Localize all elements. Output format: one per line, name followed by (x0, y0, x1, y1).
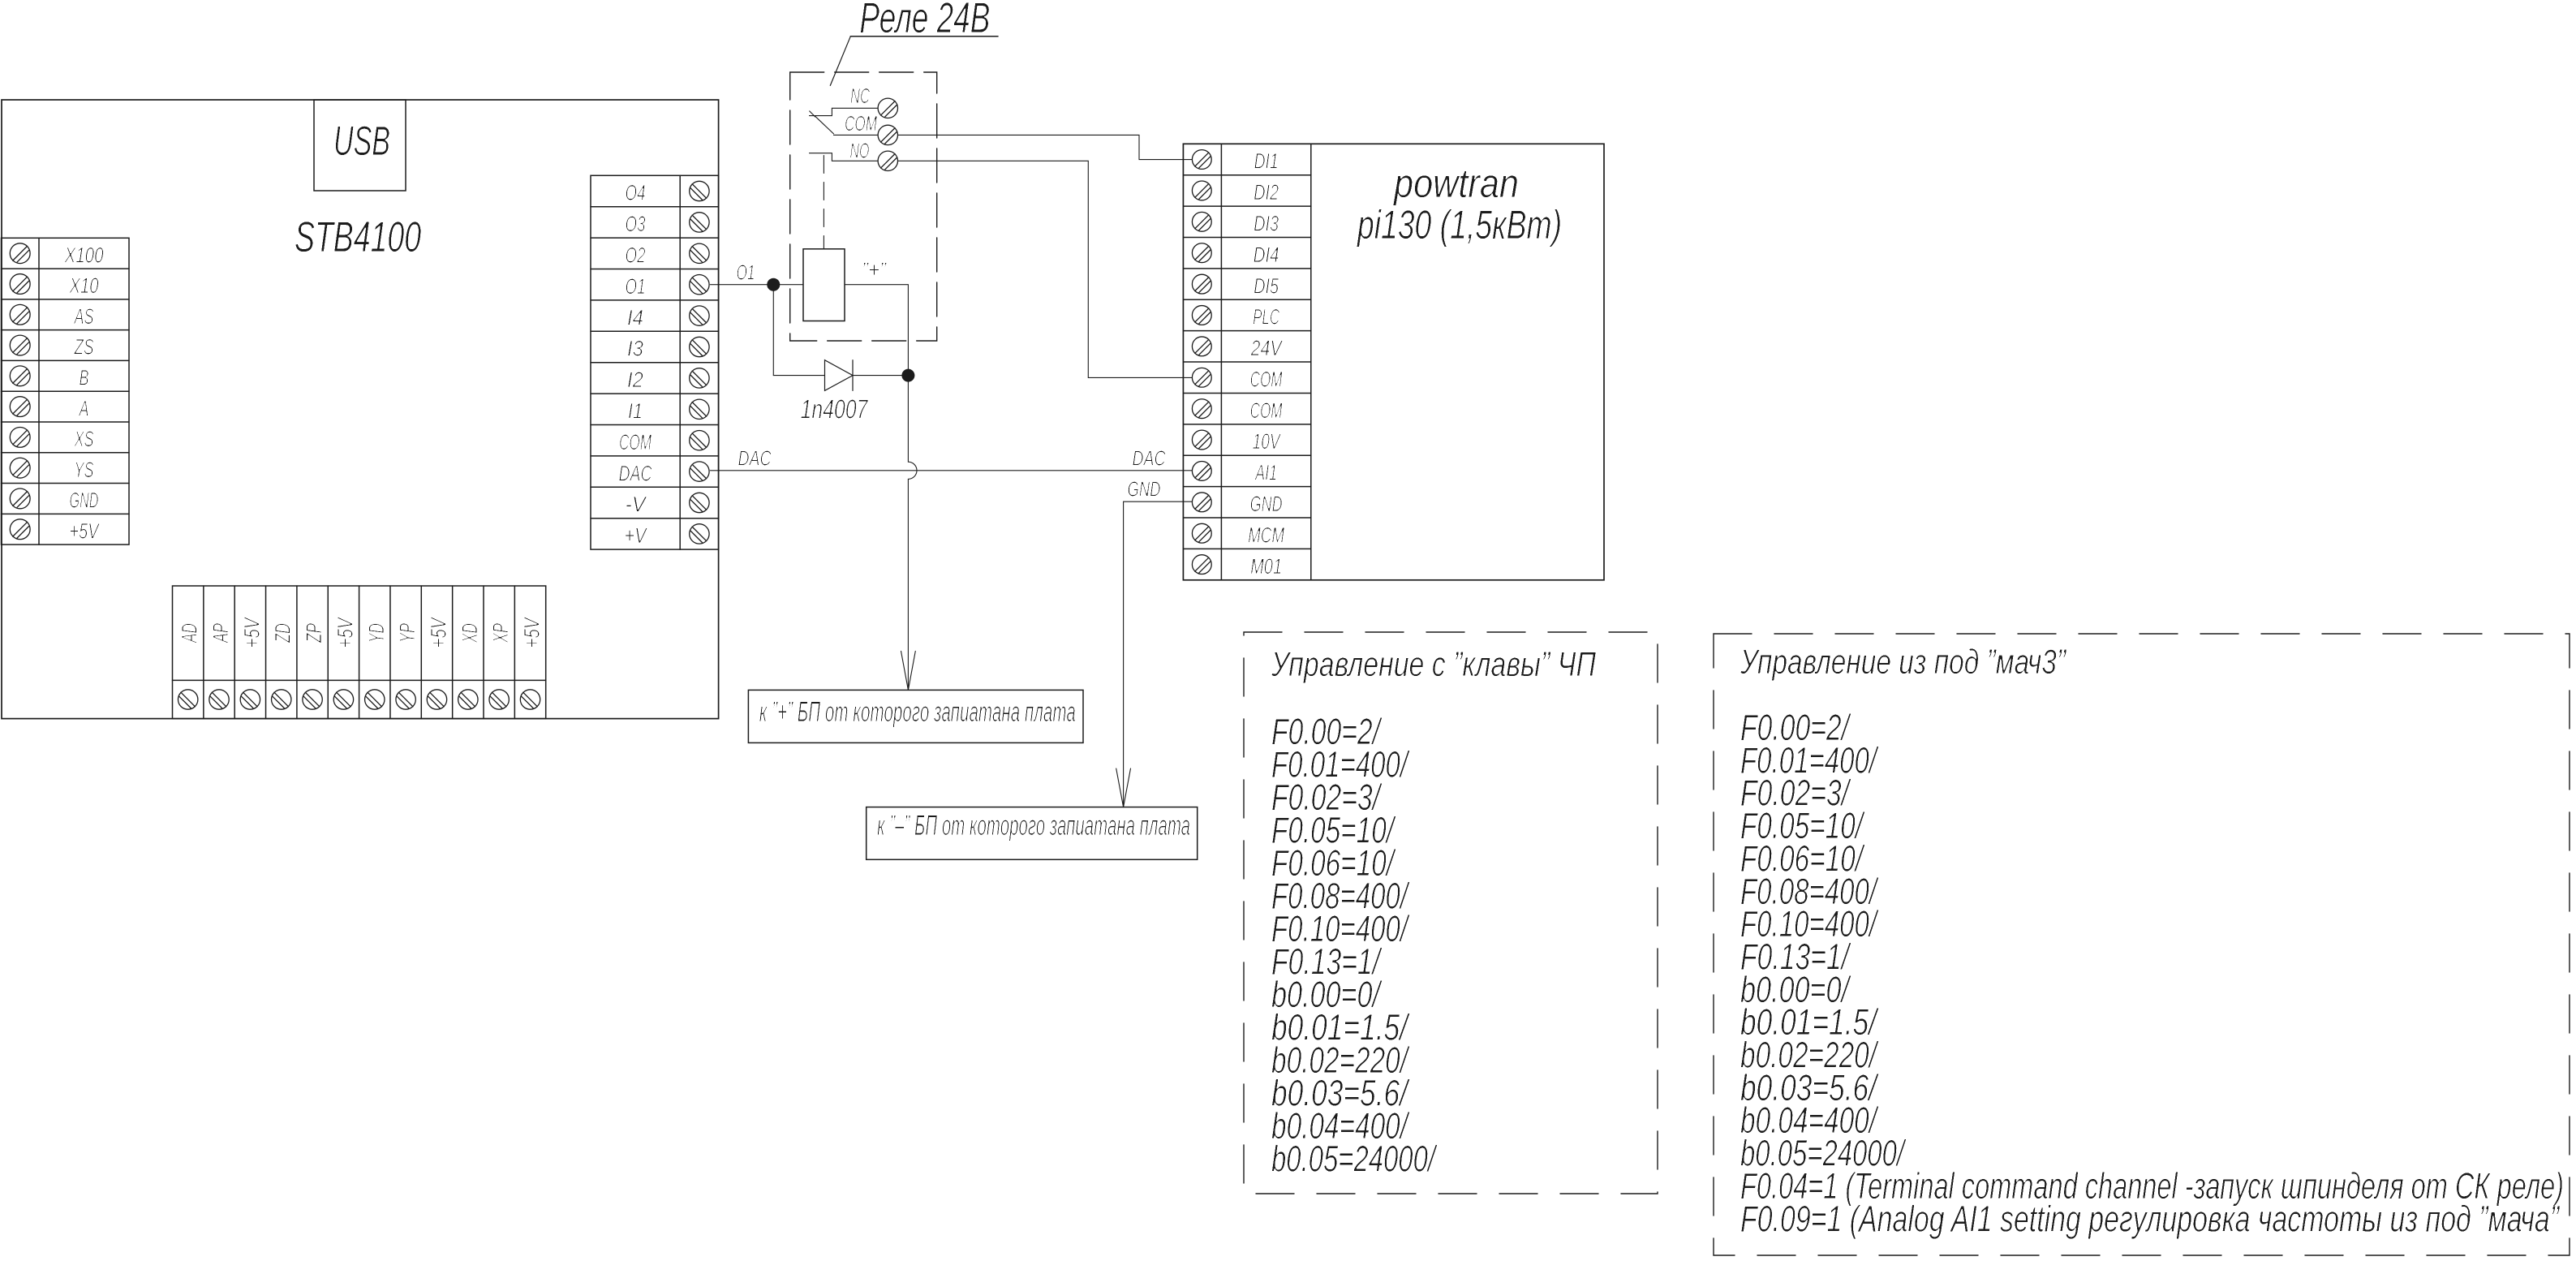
svg-text:XS: XS (74, 427, 94, 451)
svg-text:I4: I4 (627, 305, 643, 329)
svg-text:ZD: ZD (271, 623, 295, 643)
svg-text:A: A (78, 396, 88, 420)
svg-text:USB: USB (333, 118, 390, 164)
svg-text:b0.05=24000/: b0.05=24000/ (1271, 1138, 1438, 1180)
svg-text:DAC: DAC (738, 445, 772, 470)
svg-text:GND: GND (70, 488, 99, 513)
svg-text:к ”–” БП от которого запиатана: к ”–” БП от которого запиатана плата (877, 810, 1190, 841)
svg-text:ZP: ZP (302, 623, 326, 643)
svg-text:DI1: DI1 (1254, 149, 1279, 174)
svg-text:O1: O1 (737, 260, 755, 284)
svg-text:I1: I1 (628, 399, 643, 424)
svg-text:24V: 24V (1250, 336, 1284, 360)
svg-text:GND: GND (1128, 477, 1161, 501)
svg-text:O1: O1 (626, 274, 646, 299)
svg-text:+5V: +5V (70, 519, 101, 543)
svg-text:AS: AS (73, 304, 93, 329)
svg-text:+5V: +5V (426, 616, 450, 648)
svg-text:YP: YP (395, 623, 419, 643)
svg-text:10V: 10V (1253, 429, 1282, 454)
svg-text:DI3: DI3 (1254, 211, 1279, 235)
svg-text:”+”: ”+” (862, 258, 887, 282)
svg-text:AP: AP (209, 623, 233, 643)
svg-text:COM: COM (1250, 367, 1283, 391)
svg-text:+5V: +5V (520, 616, 544, 648)
svg-text:DI5: DI5 (1254, 273, 1279, 298)
svg-text:+5V: +5V (239, 616, 264, 648)
svg-text:ZS: ZS (74, 335, 94, 359)
svg-text:X10: X10 (69, 273, 99, 298)
svg-text:Управление с ”клавы” ЧП: Управление с ”клавы” ЧП (1271, 645, 1596, 684)
svg-text:F0.09=1 (Analog AI1 setting ре: F0.09=1 (Analog AI1 setting регулировка … (1740, 1198, 2561, 1239)
svg-text:B: B (80, 366, 89, 390)
svg-text:-V: -V (626, 493, 648, 517)
svg-text:O4: O4 (626, 181, 646, 205)
svg-text:I2: I2 (627, 368, 643, 392)
svg-text:MCM: MCM (1248, 523, 1284, 547)
svg-text:+5V: +5V (333, 616, 357, 648)
svg-text:NC: NC (850, 84, 870, 108)
svg-text:Управление из под ”мач3”: Управление из под ”мач3” (1740, 643, 2066, 682)
svg-text:pi130 (1,5кВт): pi130 (1,5кВт) (1357, 202, 1562, 247)
svg-text:O3: O3 (626, 212, 646, 236)
svg-text:к ”+” БП от которого запиатана: к ”+” БП от которого запиатана плата (759, 696, 1076, 728)
svg-text:YD: YD (364, 623, 389, 643)
svg-text:COM: COM (619, 430, 652, 454)
svg-text:XD: XD (458, 623, 482, 643)
svg-text:O2: O2 (626, 243, 646, 268)
svg-text:YS: YS (75, 458, 94, 482)
svg-text:powtran: powtran (1392, 161, 1519, 206)
svg-text:COM: COM (845, 111, 877, 136)
svg-text:XP: XP (488, 623, 513, 643)
svg-text:DI4: DI4 (1254, 243, 1279, 267)
svg-text:DI2: DI2 (1254, 180, 1279, 204)
svg-text:1n4007: 1n4007 (801, 394, 869, 424)
svg-text:AI1: AI1 (1254, 461, 1277, 485)
svg-text:PLC: PLC (1253, 305, 1279, 329)
svg-text:DAC: DAC (1133, 445, 1166, 470)
svg-text:I3: I3 (627, 337, 643, 361)
svg-text:STB4100: STB4100 (295, 213, 421, 261)
svg-text:DAC: DAC (619, 461, 652, 485)
svg-text:GND: GND (1250, 492, 1283, 516)
svg-text:X100: X100 (64, 243, 104, 267)
svg-text:M01: M01 (1250, 554, 1282, 579)
svg-text:AD: AD (178, 623, 202, 643)
svg-text:+V: +V (625, 523, 648, 548)
svg-text:COM: COM (1250, 398, 1283, 423)
svg-text:NO: NO (850, 138, 870, 162)
